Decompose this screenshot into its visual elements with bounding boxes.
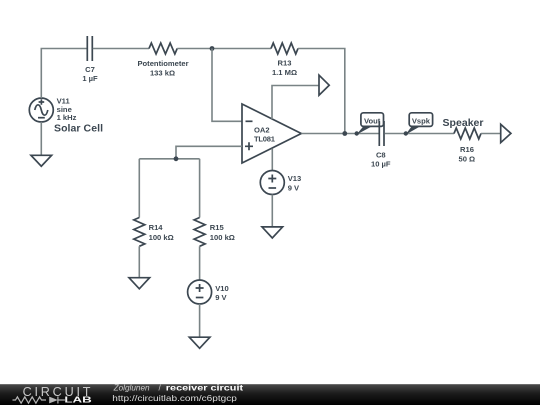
ground (R14)	[129, 278, 150, 289]
svg-text:R14: R14	[149, 223, 164, 232]
wire bus down to R14	[138, 159, 140, 218]
svg-text:133 kΩ: 133 kΩ	[150, 68, 175, 77]
svg-text:1 kHz: 1 kHz	[57, 113, 77, 122]
wire op-amp V- pin down to V13	[271, 149, 273, 171]
ground (V13)	[262, 227, 283, 238]
resistor R13	[271, 43, 298, 54]
wire bias bus	[139, 158, 199, 160]
voltage source V13	[260, 171, 284, 195]
wire node A to R13	[212, 48, 271, 50]
node Vout tail dot	[355, 131, 359, 135]
label Potentiometer 133 kOhm	[137, 59, 188, 78]
svg-text:Vout: Vout	[364, 116, 381, 125]
svg-text:http://circuitlab.com/c6ptgcp: http://circuitlab.com/c6ptgcp	[112, 394, 237, 403]
wire R13 to output node	[298, 49, 345, 134]
label C7 1 uF	[82, 65, 98, 83]
capacitor C7	[87, 36, 92, 61]
label R15 100 kOhm	[210, 223, 235, 242]
node junction (feedback)	[342, 131, 347, 136]
svg-text:Zolglunen: Zolglunen	[113, 384, 150, 393]
wire potentiometer to node A	[177, 48, 212, 50]
capacitor C8	[379, 121, 384, 146]
net flag (op-amp supply)	[319, 75, 329, 95]
svg-text:C7: C7	[85, 65, 95, 74]
wire V13 to ground	[271, 195, 273, 227]
wire op-amp output to C8	[301, 133, 379, 135]
node A junction	[210, 46, 215, 51]
svg-text:V13: V13	[288, 174, 302, 183]
svg-text:R15: R15	[210, 223, 225, 232]
svg-text:10 µF: 10 µF	[371, 160, 391, 169]
resistor R14	[134, 218, 145, 247]
voltage source V11 (sine, Solar Cell)	[29, 98, 53, 122]
wire V11 bottom to ground	[40, 122, 42, 155]
svg-text:Vspk: Vspk	[412, 116, 431, 125]
label R13 1.1 MOhm	[272, 59, 297, 77]
svg-text:C8: C8	[376, 151, 386, 160]
wire bus down to R15	[199, 159, 201, 218]
wire node A down to inverting input	[212, 49, 242, 122]
wire op-amp noninverting input left	[176, 146, 242, 159]
node label Vout	[357, 113, 384, 135]
svg-text:100 kΩ: 100 kΩ	[210, 233, 235, 242]
label R14 100 kOhm	[149, 223, 174, 242]
node label Vspk	[406, 113, 433, 135]
ground (solar cell)	[31, 155, 52, 166]
svg-text:LAB: LAB	[64, 396, 91, 405]
wire op-amp V+ pin up	[272, 86, 319, 120]
net flag (speaker out)	[501, 124, 511, 142]
wire V11 top to C7	[41, 49, 87, 99]
label V10 9 V	[215, 284, 229, 302]
svg-text:TL081: TL081	[254, 135, 276, 144]
svg-text:Potentiometer: Potentiometer	[137, 59, 188, 68]
op-amp OA2 TL081	[242, 104, 301, 163]
svg-text:receiver circuit: receiver circuit	[166, 384, 244, 393]
node B junction	[174, 156, 179, 161]
svg-text:1 µF: 1 µF	[82, 74, 98, 83]
wire R16 to output flag	[481, 133, 501, 135]
svg-text:1.1 MΩ: 1.1 MΩ	[272, 68, 297, 77]
CircuitLab logo resistor-diode glyph	[13, 397, 65, 404]
resistor R16	[454, 128, 481, 139]
svg-text:9 V: 9 V	[288, 184, 300, 193]
label C8 10 uF	[371, 151, 391, 169]
resistor Potentiometer 133k	[149, 43, 177, 54]
ground (V10)	[189, 337, 210, 348]
svg-text:OA2: OA2	[254, 126, 270, 135]
label V11 sine 1 kHz Solar Cell	[54, 97, 103, 135]
svg-text:Speaker: Speaker	[443, 117, 484, 129]
node Vspk tail dot	[404, 131, 408, 135]
wire C8 to R16	[385, 133, 455, 135]
svg-text:R13: R13	[278, 59, 292, 68]
resistor R15	[194, 218, 205, 247]
svg-text:50 Ω: 50 Ω	[458, 155, 475, 164]
wire R14 to ground	[138, 246, 140, 277]
wire V10 to ground	[199, 304, 201, 337]
footer title text	[112, 384, 244, 403]
svg-text:V10: V10	[215, 284, 229, 293]
svg-text:100 kΩ: 100 kΩ	[149, 233, 174, 242]
wire R15 to V10	[199, 246, 201, 280]
svg-text:9 V: 9 V	[215, 293, 227, 302]
label R16 50 Ohm	[458, 145, 475, 164]
wire C7 to potentiometer	[93, 48, 149, 50]
svg-text:Solar Cell: Solar Cell	[54, 123, 103, 135]
label V13 9 V	[288, 174, 302, 193]
voltage source V10	[188, 280, 212, 304]
svg-text:R16: R16	[460, 145, 474, 154]
